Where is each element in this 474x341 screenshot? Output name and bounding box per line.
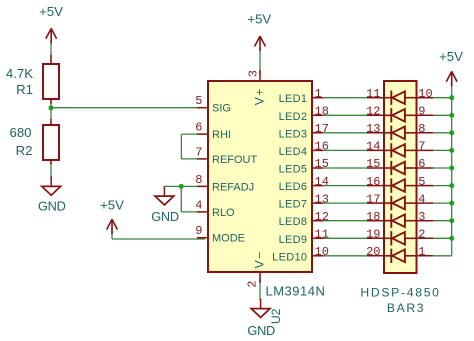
svg-text:9: 9 (195, 224, 202, 238)
svg-text:+5V: +5V (247, 12, 271, 27)
svg-text:LED5: LED5 (279, 164, 308, 176)
svg-text:LED9: LED9 (279, 234, 308, 246)
svg-text:+5V: +5V (439, 49, 463, 64)
svg-text:2: 2 (246, 281, 260, 288)
svg-text:17: 17 (315, 122, 329, 136)
svg-text:LED8: LED8 (279, 216, 308, 228)
svg-text:16: 16 (315, 140, 329, 154)
svg-text:12: 12 (315, 210, 329, 224)
svg-text:LED2: LED2 (279, 111, 308, 123)
svg-text:6: 6 (418, 157, 425, 171)
svg-text:7: 7 (195, 145, 202, 159)
svg-text:11: 11 (366, 87, 380, 101)
svg-text:1: 1 (418, 245, 425, 259)
svg-text:3: 3 (247, 70, 261, 77)
svg-text:LM3914N: LM3914N (266, 283, 326, 298)
svg-text:LED6: LED6 (279, 181, 308, 193)
svg-text:10: 10 (418, 87, 432, 101)
svg-text:19: 19 (366, 228, 380, 242)
svg-text:11: 11 (315, 228, 329, 242)
svg-text:U2: U2 (269, 308, 283, 324)
svg-text:680: 680 (9, 125, 31, 140)
svg-text:4.7K: 4.7K (6, 66, 33, 81)
svg-text:18: 18 (366, 210, 380, 224)
svg-text:15: 15 (315, 157, 329, 171)
svg-text:18: 18 (315, 105, 329, 119)
svg-text:MODE: MODE (212, 233, 245, 245)
svg-text:15: 15 (366, 157, 380, 171)
svg-text:+5V: +5V (100, 197, 124, 212)
svg-text:20: 20 (366, 245, 380, 259)
svg-text:4: 4 (195, 198, 202, 212)
svg-text:13: 13 (366, 122, 380, 136)
svg-text:+5V: +5V (39, 4, 63, 19)
svg-text:LED7: LED7 (279, 199, 308, 211)
svg-text:GND: GND (151, 209, 179, 224)
svg-text:RHI: RHI (212, 129, 231, 141)
svg-text:HDSP-4850: HDSP-4850 (360, 285, 440, 299)
svg-text:LED1: LED1 (279, 93, 308, 105)
svg-text:GND: GND (247, 323, 275, 338)
svg-text:LED10: LED10 (272, 251, 307, 263)
svg-text:LED4: LED4 (279, 146, 308, 158)
svg-text:5: 5 (418, 175, 425, 189)
svg-text:4: 4 (418, 192, 425, 206)
svg-text:9: 9 (418, 105, 425, 119)
svg-text:16: 16 (366, 175, 380, 189)
svg-text:3: 3 (418, 210, 425, 224)
svg-text:GND: GND (38, 199, 66, 214)
svg-text:5: 5 (195, 94, 202, 108)
svg-text:V−: V− (252, 250, 266, 268)
svg-text:8: 8 (418, 122, 425, 136)
svg-text:V+: V+ (252, 87, 266, 105)
svg-text:1: 1 (315, 87, 322, 101)
svg-text:14: 14 (366, 140, 380, 154)
svg-text:REFADJ: REFADJ (212, 181, 254, 193)
svg-text:14: 14 (315, 175, 329, 189)
svg-text:SIG: SIG (212, 103, 231, 115)
svg-text:12: 12 (366, 105, 380, 119)
svg-text:6: 6 (195, 121, 202, 135)
svg-text:BAR3: BAR3 (387, 301, 425, 315)
svg-text:LED3: LED3 (279, 128, 308, 140)
svg-text:RLO: RLO (212, 207, 235, 219)
svg-text:8: 8 (195, 173, 202, 187)
svg-text:R2: R2 (16, 143, 33, 158)
svg-text:13: 13 (315, 192, 329, 206)
svg-text:10: 10 (315, 245, 329, 259)
svg-text:REFOUT: REFOUT (212, 154, 258, 166)
svg-text:7: 7 (418, 140, 425, 154)
svg-text:R1: R1 (16, 82, 33, 97)
svg-text:17: 17 (366, 192, 380, 206)
svg-text:2: 2 (418, 228, 425, 242)
